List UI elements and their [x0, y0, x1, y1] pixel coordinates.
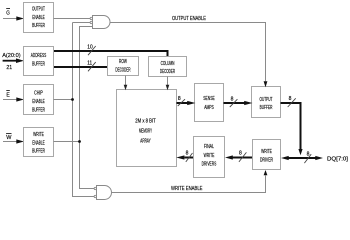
wire gate U2 output to write driver — [112, 170, 268, 193]
gate U2 (AND, inverted inputs) — [94, 186, 111, 200]
wire gate U1 output to output buffer — [110, 23, 267, 88]
svg-text:8: 8 — [231, 97, 234, 103]
svg-text:BUFFER: BUFFER — [32, 107, 45, 113]
wire write-enable vertical net — [54, 27, 95, 189]
svg-text:DRIVERS: DRIVERS — [202, 162, 217, 168]
sense amps — [195, 84, 224, 122]
svg-text:ROW: ROW — [119, 59, 127, 65]
svg-text:8: 8 — [239, 150, 242, 156]
svg-text:BUFFER: BUFFER — [32, 62, 45, 68]
svg-text:MEMORY: MEMORY — [139, 129, 152, 135]
bus array to sense amps — [177, 101, 196, 105]
svg-text:E: E — [6, 93, 10, 99]
svg-text:DECODER: DECODER — [160, 69, 175, 75]
bus write driver to final write drivers — [225, 155, 253, 159]
write driver — [253, 140, 281, 170]
svg-text:WRITE ENABLE: WRITE ENABLE — [171, 186, 203, 192]
svg-text:WRITE: WRITE — [33, 132, 44, 138]
final write drivers — [194, 137, 225, 178]
bus 10 address to column decoder — [54, 51, 168, 57]
bus width 8 label and slash (sense-outbuf) — [230, 97, 238, 107]
bus sense amps to output buffer — [224, 101, 253, 105]
input E-bar arrow — [3, 97, 24, 101]
input W-bar label — [6, 134, 12, 141]
bus 11 label and slash — [87, 61, 95, 72]
bus width 8 label and slash (wd-fwd) — [239, 150, 247, 162]
row decoder — [108, 57, 139, 76]
svg-text:ADDRESS: ADDRESS — [31, 53, 47, 59]
input A bus arrow with width 21 — [3, 58, 24, 71]
input G-bar arrow — [3, 16, 24, 20]
chip enable buffer — [24, 85, 54, 115]
input W-bar arrow — [3, 139, 24, 143]
wire OE buffer to gate U1 top input — [54, 18, 91, 20]
node WRITE ENABLE label — [171, 186, 203, 192]
bus 11 address to row decoder — [54, 66, 108, 68]
svg-text:SENSE: SENSE — [203, 96, 214, 102]
memory array — [117, 90, 177, 167]
junction dot chip-enable net — [71, 98, 74, 101]
svg-text:COLUMN: COLUMN — [161, 61, 175, 67]
address buffer — [24, 47, 54, 76]
wire chip-enable vertical net — [54, 23, 95, 197]
gate U1 (AND, inverted inputs) — [90, 16, 110, 29]
wire column decoder to array — [166, 77, 170, 91]
svg-text:8: 8 — [289, 96, 292, 102]
svg-text:ENABLE: ENABLE — [32, 15, 45, 21]
bus DQ bidirectional — [281, 156, 323, 160]
node DQ[7:0] label — [327, 156, 348, 162]
svg-text:DQ[7:0]: DQ[7:0] — [327, 156, 348, 162]
bus final write drivers to array — [176, 155, 193, 159]
svg-text:OUTPUT: OUTPUT — [32, 7, 45, 13]
svg-text:21: 21 — [6, 65, 12, 71]
svg-text:WRITE: WRITE — [204, 153, 215, 159]
wire row decoder to array — [124, 76, 128, 91]
bus width 8 label and slash (array-fwd) — [186, 150, 193, 162]
svg-text:CHIP: CHIP — [34, 90, 43, 96]
node OUTPUT ENABLE label — [172, 16, 206, 22]
svg-text:2M x 8 BIT: 2M x 8 BIT — [135, 118, 156, 124]
svg-text:AMPS: AMPS — [204, 105, 214, 111]
svg-text:FINAL: FINAL — [204, 144, 214, 150]
junction dot write-enable net — [78, 140, 81, 143]
bus width 8 label and slash (DQ) — [304, 152, 311, 164]
svg-text:OUTPUT: OUTPUT — [260, 97, 273, 103]
svg-text:DRIVER: DRIVER — [260, 158, 273, 164]
svg-text:8: 8 — [186, 150, 189, 156]
svg-text:OUTPUT ENABLE: OUTPUT ENABLE — [172, 16, 206, 22]
input A(20:0) label — [2, 53, 20, 59]
svg-text:8: 8 — [178, 96, 181, 102]
svg-text:BUFFER: BUFFER — [32, 149, 45, 155]
svg-text:G: G — [6, 10, 10, 16]
svg-text:11: 11 — [87, 61, 92, 67]
bus output buffer to DQ — [281, 103, 303, 155]
input G-bar label — [6, 9, 10, 17]
output enable buffer — [24, 3, 54, 33]
output buffer — [252, 87, 281, 118]
svg-text:ARRAY: ARRAY — [140, 138, 150, 144]
svg-text:ENABLE: ENABLE — [32, 140, 45, 146]
svg-text:BUFFER: BUFFER — [260, 105, 273, 111]
svg-text:W: W — [6, 135, 12, 141]
input E-bar label — [6, 91, 10, 99]
write enable buffer — [24, 128, 54, 157]
bus width 8 label and slash (outbuf) — [288, 96, 296, 107]
bus 10 label and slash — [87, 45, 95, 56]
bus width 8 label and slash (array-sense) — [178, 96, 185, 106]
svg-text:10: 10 — [87, 45, 92, 51]
column decoder — [149, 57, 187, 77]
svg-text:ENABLE: ENABLE — [32, 99, 45, 105]
svg-text:WRITE: WRITE — [261, 149, 272, 155]
svg-text:A(20:0): A(20:0) — [2, 53, 20, 59]
svg-text:BUFFER: BUFFER — [32, 23, 45, 29]
svg-text:DECODER: DECODER — [115, 68, 130, 74]
